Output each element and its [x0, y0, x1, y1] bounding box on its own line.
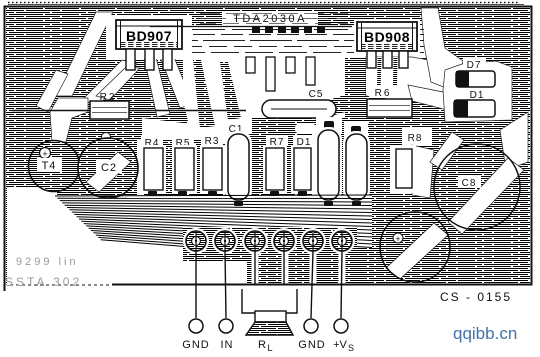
- ruler tick strip above top border: [8, 3, 524, 5]
- svg-text:+: +: [42, 149, 47, 159]
- resistor R2: [90, 92, 129, 119]
- transistor BD907: [106, 15, 192, 70]
- capacitor C1: [225, 124, 252, 203]
- white area around diodes D7 D1: [443, 61, 512, 122]
- label IN: [221, 339, 234, 351]
- wire RL2 lead: [283, 251, 285, 284]
- hatch wedges inside central blob: [193, 60, 215, 128]
- wire GND2 lead: [311, 251, 313, 318]
- diode D7: [456, 58, 495, 87]
- connector circle IN: [219, 319, 233, 333]
- svg-text:S: S: [348, 343, 354, 352]
- wire traces below BD908 legs: [366, 57, 409, 95]
- long wire horizontal y=110: [12, 110, 246, 112]
- resistor R3: [200, 134, 225, 193]
- svg-text:qqibb.cn: qqibb.cn: [453, 324, 517, 343]
- white region right of BD908 legs: [366, 57, 448, 102]
- white gap left of R4: [137, 140, 144, 196]
- svg-text:IN: IN: [221, 339, 234, 351]
- wire speaker left bracket: [242, 289, 255, 313]
- wire fan traces below components: [55, 195, 372, 262]
- svg-text:+V: +V: [333, 339, 347, 351]
- svg-text:D7: D7: [467, 60, 482, 71]
- diode D1: [454, 88, 495, 117]
- svg-text:CS - 0155: CS - 0155: [440, 290, 512, 304]
- resistor R8: [390, 131, 426, 193]
- wire short diagonal stripe lower-left: [36, 70, 68, 112]
- white pad halos: [183, 228, 355, 254]
- svg-text:C2: C2: [101, 162, 117, 174]
- svg-text:+: +: [395, 234, 400, 244]
- white wedge right of R8: [412, 145, 434, 198]
- wire white wedge R6 to D1: [408, 85, 455, 112]
- svg-text:C5: C5: [309, 89, 324, 100]
- terminal pad GND2: [303, 231, 323, 251]
- svg-text:GND: GND: [182, 339, 209, 351]
- wire thin lines across top band: [109, 30, 424, 53]
- transistor BD908: [354, 19, 420, 68]
- svg-text:GND: GND: [298, 339, 325, 351]
- pad above R7: [295, 123, 316, 134]
- label GND2: [298, 339, 325, 351]
- capacitor C2 circle: [78, 133, 138, 199]
- svg-text:TDA2030A: TDA2030A: [233, 13, 307, 25]
- white notch right border top: [500, 112, 528, 170]
- hatch band below pads right part: [247, 248, 374, 284]
- label VS: [333, 339, 354, 353]
- terminal pad GND1: [186, 231, 206, 251]
- wire GND1 lead: [195, 251, 197, 318]
- wire junction and trace down to T4: [50, 98, 88, 142]
- svg-text:BD907: BD907: [126, 28, 172, 44]
- hatch wedges between BD908 leg traces: [377, 57, 382, 92]
- connector circle GND2: [304, 319, 318, 333]
- resistor R6: [367, 86, 412, 117]
- wire IN lead: [225, 251, 226, 318]
- wire lines through pads: [196, 231, 342, 252]
- white curving band right of BD908: [421, 8, 463, 92]
- transistor T4 circle: [29, 141, 80, 192]
- wire speaker right bracket: [286, 289, 297, 313]
- connector circle VS: [334, 319, 348, 333]
- white diagonal above C8: [430, 132, 464, 170]
- capacitor C4: [343, 122, 370, 203]
- resistor R4: [141, 136, 166, 193]
- white diagonal band through capacitor C8 circle: [448, 158, 524, 234]
- bottom-left white area: [7, 188, 57, 284]
- terminal pad RL1: [245, 231, 265, 251]
- svg-text:SSTA 302: SSTA 302: [5, 275, 82, 289]
- capacitor C8 circle: [434, 144, 520, 230]
- svg-text:L: L: [267, 343, 272, 352]
- resistor R7: [263, 135, 288, 193]
- capacitor C5 pill body: [262, 100, 336, 118]
- central white etched blob under TDA2030A: [183, 57, 345, 143]
- hatch band around pads: [183, 227, 357, 261]
- silkscreen text line2: [5, 275, 82, 289]
- wire second left diagonal trace: [82, 60, 137, 106]
- IC TDA2030A label: [150, 13, 352, 33]
- wire top-left diagonal trace: [55, 12, 113, 96]
- svg-text:T4: T4: [42, 160, 57, 172]
- white region below component row: [55, 195, 372, 284]
- wire trace from BD907 left leg: [96, 68, 140, 100]
- capacitor C7 circle: [380, 212, 450, 282]
- solder pads under components: [148, 191, 361, 206]
- white halo behind TDA2030A text: [200, 11, 348, 25]
- white diagonal band through capacitor C7 circle: [386, 223, 448, 279]
- white patch above resistors R4 R5: [142, 118, 200, 140]
- svg-text:R8: R8: [408, 133, 423, 144]
- capacitor C5 label: [304, 86, 328, 100]
- wire traces below BD907 legs: [144, 57, 193, 117]
- svg-text:R: R: [258, 339, 266, 351]
- wire RL1 lead: [254, 251, 256, 284]
- terminal pad IN: [215, 231, 235, 251]
- terminal pad RL2: [274, 231, 294, 251]
- terminal pad VS: [332, 231, 352, 251]
- white patch behind R8 label: [402, 128, 432, 145]
- diode D2: [291, 135, 315, 193]
- board id CS-0155: [440, 290, 512, 304]
- IC pins TDA2030A: [246, 57, 315, 91]
- svg-text:C8: C8: [462, 178, 477, 189]
- board copper area: [6, 8, 530, 284]
- speaker RL symbol: [246, 311, 293, 335]
- wire VS lead: [341, 251, 342, 318]
- svg-text:9299 lin: 9299 lin: [16, 256, 79, 268]
- label RL: [258, 339, 272, 353]
- label GND1: [182, 339, 209, 351]
- svg-text:BD908: BD908: [364, 29, 410, 45]
- connector circle GND1: [189, 319, 203, 333]
- board border: [5, 7, 532, 292]
- svg-text:R6: R6: [375, 88, 392, 99]
- resistor R5: [172, 136, 197, 193]
- silkscreen text line1: [16, 256, 79, 268]
- watermark: [453, 324, 517, 343]
- top white band between transistors: [107, 25, 428, 57]
- capacitor C3: [312, 117, 342, 203]
